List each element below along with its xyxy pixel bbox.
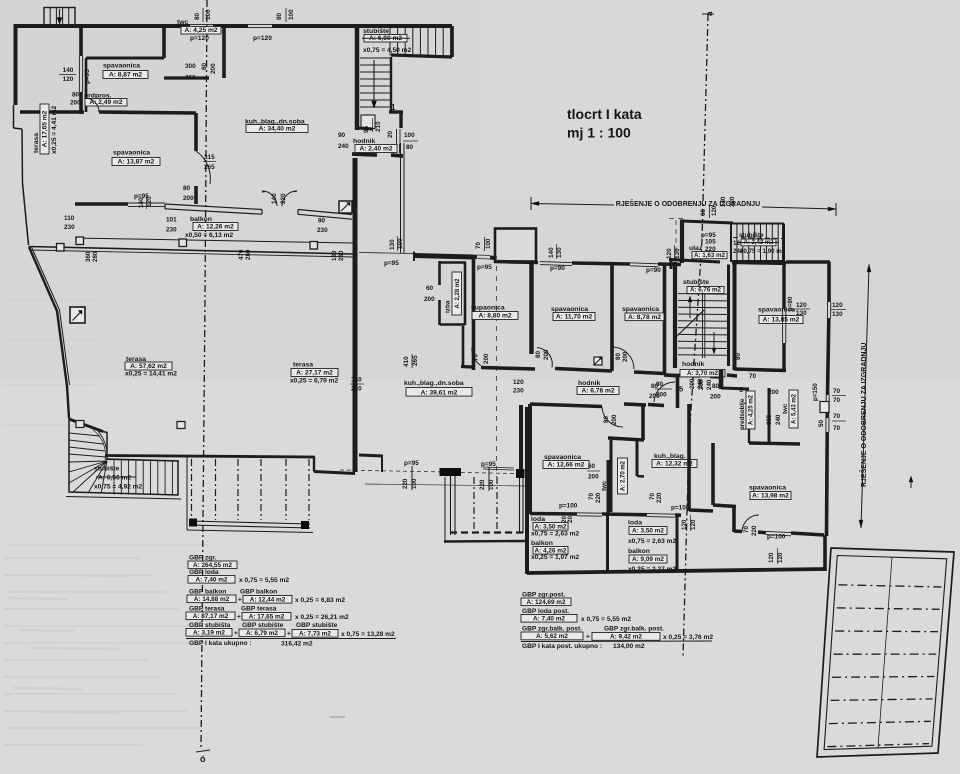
balcony edge lines with column squares (75, 238, 353, 243)
svg-text:70: 70 (833, 413, 841, 420)
svg-text:spavaonica: spavaonica (103, 63, 140, 70)
svg-text:180: 180 (331, 250, 338, 261)
door arc kupaonica (left end of bottom wall) (472, 347, 481, 366)
svg-text:120: 120 (796, 302, 807, 309)
wall top of spav 12.66 (530, 404, 602, 407)
run treads (113, 461, 115, 495)
left outer wall (14, 24, 18, 105)
predsoblje/twc walls (719, 370, 724, 389)
svg-text:A: 13,85 m2: A: 13,85 m2 (763, 317, 800, 324)
svg-text:265: 265 (204, 164, 215, 171)
13.85 right wall with window (782, 261, 785, 309)
svg-text:100: 100 (288, 9, 295, 20)
twc room walls (162, 26, 166, 58)
svg-text:predsoblje: predsoblje (739, 398, 746, 430)
svg-text:A: 3,50 m2: A: 3,50 m2 (535, 523, 567, 530)
svg-text:70: 70 (749, 373, 757, 380)
izba room (438, 261, 441, 285)
door arc 11.70 (613, 347, 634, 369)
door arc 13.98 (742, 515, 759, 532)
svg-text:355: 355 (766, 414, 773, 425)
svg-text:220: 220 (280, 193, 287, 204)
svg-text:120: 120 (711, 205, 718, 216)
door arc 12.66 top (602, 407, 623, 427)
svg-text:p=95: p=95 (404, 460, 419, 467)
svg-text:70: 70 (743, 526, 750, 533)
svg-text:80: 80 (535, 351, 542, 358)
top outer wall (14, 24, 190, 28)
svg-text:p=100: p=100 (671, 505, 690, 512)
svg-text:x0,75 = 4,92 m2: x0,75 = 4,92 m2 (94, 484, 143, 491)
svg-text:200: 200 (622, 351, 629, 362)
right building left wall (680, 220, 684, 264)
svg-text:hodnik: hodnik (353, 138, 375, 145)
svg-text:stubište: stubište (739, 232, 764, 239)
svg-text:80: 80 (603, 416, 610, 423)
wall x677 (676, 377, 680, 408)
svg-text:120: 120 (63, 76, 74, 83)
black corner square at door (594, 357, 602, 365)
svg-text:130: 130 (674, 248, 681, 259)
svg-text:GBP zgr.balk. post.: GBP zgr.balk. post. (522, 626, 582, 633)
svg-text:210: 210 (375, 121, 382, 132)
svg-text:tlocrt I kata: tlocrt I kata (567, 106, 642, 122)
bottom long wall (527, 569, 826, 573)
svg-text:A: 39,61 m2: A: 39,61 m2 (421, 389, 458, 396)
svg-text:kupaonica: kupaonica (471, 305, 505, 312)
svg-text:A: 1,63 m2: A: 1,63 m2 (694, 252, 726, 259)
svg-text:70: 70 (649, 493, 656, 500)
svg-text:A: 2,28 m2: A: 2,28 m2 (455, 278, 461, 309)
window p=120 #2 (248, 23, 272, 25)
svg-text:140: 140 (720, 196, 727, 207)
svg-text:A: 11,70 m2: A: 11,70 m2 (556, 314, 593, 321)
svg-text:A: 8,78 m2: A: 8,78 m2 (628, 314, 661, 321)
wall above strip2 (519, 405, 523, 469)
svg-text:izba: izba (445, 300, 452, 313)
svg-text:120: 120 (681, 519, 688, 530)
svg-text:A: 12,66 m2: A: 12,66 m2 (548, 462, 585, 469)
svg-text:200: 200 (483, 353, 490, 364)
13.98 bottom zigzag walls (713, 505, 736, 507)
svg-text:230: 230 (513, 388, 524, 395)
fan spokes (69, 461, 107, 462)
treads top run (vertical lines) (389, 28, 391, 56)
svg-text:100: 100 (485, 238, 492, 249)
faint bleed-through ghost lines bottom-left (4, 557, 140, 559)
door arc to hodnik right (654, 382, 675, 402)
svg-text:GBP stubišta: GBP stubišta (189, 622, 231, 629)
svg-text:p=90: p=90 (646, 267, 661, 274)
svg-text:x0,50 = 6,13 m2: x0,50 = 6,13 m2 (185, 232, 234, 239)
svg-text:A: 3,70 m2: A: 3,70 m2 (687, 370, 719, 377)
room divider spav8.78/stair column (663, 264, 667, 374)
svg-text:200: 200 (70, 100, 81, 107)
stair arrow down (373, 60, 375, 103)
stubiste 2.43 (top right stair) (731, 224, 783, 262)
svg-text:100: 100 (205, 9, 212, 20)
svg-text:terasa: terasa (293, 362, 313, 369)
svg-text:315: 315 (204, 154, 215, 161)
svg-text:balkon: balkon (531, 540, 553, 547)
stubiste 6.76 (right building stair) (678, 293, 727, 296)
svg-text:70: 70 (833, 388, 841, 395)
svg-text:200: 200 (611, 414, 618, 425)
svg-text:RJEŠENJE O ODOBRENJU ZA IZGRAD: RJEŠENJE O ODOBRENJU ZA IZGRADNJU (859, 343, 868, 487)
svg-text:300: 300 (185, 63, 196, 70)
svg-text:A: 4,25 m2: A: 4,25 m2 (749, 394, 755, 425)
svg-text:200: 200 (588, 474, 599, 481)
svg-text:80: 80 (406, 144, 414, 151)
window p=120 #1 (190, 23, 213, 25)
svg-text:GBP I kata ukupno :: GBP I kata ukupno : (189, 640, 252, 647)
faint bleed lines left middle (2, 299, 95, 301)
svg-text:A: 14,88 m2: A: 14,88 m2 (194, 596, 230, 603)
svg-text:220: 220 (402, 478, 409, 489)
svg-text:120: 120 (666, 248, 673, 259)
svg-text:x 0,75 = 13,28 m2: x 0,75 = 13,28 m2 (341, 631, 395, 638)
right wall of stair 2.43 (782, 224, 785, 262)
svg-text:stubište: stubište (683, 279, 709, 286)
svg-text:60: 60 (700, 209, 707, 216)
long wall from stair to center (105, 456, 315, 458)
svg-text:200: 200 (210, 63, 217, 74)
svg-text:6: 6 (739, 385, 743, 394)
svg-text:230: 230 (166, 227, 177, 234)
room divider kupaonica/spav11.70 (529, 261, 533, 354)
window p=100 right loda (766, 531, 791, 532)
svg-text:+: + (586, 634, 590, 641)
svg-text:+: + (238, 597, 242, 604)
upper flight treads (69, 433, 100, 436)
svg-text:p=95: p=95 (384, 260, 399, 267)
section line g (vertical dashed) (201, 0, 207, 748)
wall x643 down (641, 404, 645, 440)
svg-text:GBP loda post.: GBP loda post. (522, 608, 569, 615)
window right of porch (396, 129, 398, 144)
svg-text:470: 470 (238, 249, 245, 260)
svg-text:x 0,25 = 6,83 m2: x 0,25 = 6,83 m2 (295, 597, 345, 604)
svg-text:60: 60 (588, 463, 596, 470)
svg-text:A: 17,65 m2: A: 17,65 m2 (42, 110, 49, 147)
svg-text:A: 7,73 m2: A: 7,73 m2 (299, 630, 331, 637)
svg-text:GBP terasa: GBP terasa (241, 606, 277, 613)
stubiste 6.00 box (top) (355, 26, 360, 130)
svg-text:A: 6,76 m2: A: 6,76 m2 (690, 287, 722, 294)
svg-text:100: 100 (404, 132, 415, 139)
svg-text:200: 200 (656, 392, 667, 399)
svg-text:GBP loda: GBP loda (189, 569, 219, 576)
svg-text:ó: ó (200, 754, 206, 764)
svg-text:x0,25 = 4,41 m2: x0,25 = 4,41 m2 (51, 105, 58, 154)
svg-text:220: 220 (479, 479, 486, 490)
svg-text:A: 57,62 m2: A: 57,62 m2 (130, 363, 167, 370)
svg-text:p=90: p=90 (550, 265, 565, 272)
section line a (vertical dash-dot) (683, 14, 708, 658)
svg-text:spavaonica: spavaonica (551, 306, 588, 313)
svg-text:x0,75 = 4,50 m2: x0,75 = 4,50 m2 (363, 47, 412, 54)
svg-text:A: 87,17 m2: A: 87,17 m2 (193, 613, 229, 620)
svg-text:220: 220 (595, 492, 602, 503)
svg-text:p=100: p=100 (559, 503, 578, 510)
svg-text:GBP zgr.balk. post.: GBP zgr.balk. post. (604, 626, 664, 633)
svg-text:A: 2,70 m2: A: 2,70 m2 (621, 460, 627, 491)
svg-text:p=150: p=150 (812, 383, 819, 401)
svg-text:hodnik: hodnik (682, 361, 704, 368)
loda row right wall (823, 535, 827, 571)
svg-text:140: 140 (63, 67, 74, 74)
svg-text:p=120: p=120 (253, 35, 272, 42)
svg-text:130: 130 (389, 239, 396, 250)
svg-text:spavaonica: spavaonica (113, 150, 150, 157)
svg-text:x 0,75 = 5,55 m2: x 0,75 = 5,55 m2 (239, 577, 289, 584)
svg-text:x0,25 = 1,07 m2: x0,25 = 1,07 m2 (531, 554, 580, 561)
svg-text:A: 3,19 m2: A: 3,19 m2 (193, 629, 225, 636)
svg-text:GBP balkon: GBP balkon (240, 589, 277, 596)
svg-text:360: 360 (85, 251, 92, 262)
svg-text:spavaonica: spavaonica (622, 306, 659, 313)
svg-text:100: 100 (488, 479, 495, 490)
wall below entry going down (353, 158, 358, 255)
svg-text:twc: twc (782, 403, 789, 414)
svg-text:100: 100 (411, 478, 418, 489)
svg-text:GBP stubište: GBP stubište (296, 622, 338, 629)
right building top wall (682, 221, 733, 223)
right wall of 13.87 (194, 113, 198, 151)
svg-text:A: 9,09 m2: A: 9,09 m2 (632, 556, 664, 563)
svg-text:A: 6,78 m2: A: 6,78 m2 (582, 388, 615, 395)
svg-text:stubište: stubište (363, 28, 389, 35)
svg-text:A: 6,79 m2: A: 6,79 m2 (246, 630, 278, 637)
svg-text:A: 9,42 m2: A: 9,42 m2 (610, 634, 642, 641)
waist wall west of kupaonica (414, 256, 473, 258)
svg-text:105: 105 (705, 239, 716, 246)
svg-text:x0,25 = 14,41 m2: x0,25 = 14,41 m2 (125, 371, 177, 378)
svg-text:200: 200 (689, 378, 696, 389)
svg-text:130: 130 (832, 311, 843, 318)
svg-text:A: 12,26 m2: A: 12,26 m2 (197, 224, 234, 231)
ulaz bottom wall with hook (669, 260, 720, 263)
svg-text:GBP zgr.: GBP zgr. (189, 555, 217, 562)
svg-text:balkon: balkon (628, 548, 650, 555)
svg-text:GBP stubište: GBP stubište (242, 622, 284, 629)
svg-text:GBP I kata post. ukupno :: GBP I kata post. ukupno : (522, 643, 602, 650)
svg-text:80: 80 (194, 12, 201, 20)
small square right of stair (177, 422, 185, 429)
svg-text:A: 7,40 m2: A: 7,40 m2 (196, 576, 228, 583)
svg-text:200: 200 (710, 394, 721, 401)
svg-text:A: 8,80 m2: A: 8,80 m2 (479, 313, 512, 320)
svg-text:70: 70 (475, 242, 482, 249)
svg-text:A: 2,49 m2: A: 2,49 m2 (90, 99, 123, 106)
13.85 bottom wall (734, 369, 786, 371)
svg-text:x 0,25 = 26,21 m2: x 0,25 = 26,21 m2 (295, 614, 349, 621)
svg-text:x0,75 = 1,90 m2: x0,75 = 1,90 m2 (740, 248, 786, 255)
svg-text:GBP zgr.post.: GBP zgr.post. (522, 592, 565, 599)
wall segment right of center column (359, 455, 383, 456)
svg-text:A: 5,43 m2: A: 5,43 m2 (792, 393, 798, 424)
windows in right wall (825, 395, 827, 409)
svg-text:316,42 m2: 316,42 m2 (281, 641, 313, 648)
svg-text:A: 8,87 m2: A: 8,87 m2 (109, 72, 142, 79)
svg-text:95: 95 (363, 125, 370, 133)
svg-text:x0,75 = 2,63 m2: x0,75 = 2,63 m2 (628, 538, 677, 545)
svg-text:220: 220 (729, 196, 736, 207)
svg-text:200: 200 (183, 195, 194, 202)
small arrow above pool (910, 478, 912, 488)
RJESENJE horizontal dimension (531, 204, 614, 206)
svg-text:x 0,75 = 5,55 m2: x 0,75 = 5,55 m2 (581, 616, 631, 623)
svg-text:hodnik: hodnik (578, 380, 600, 387)
kupaonica left wall (472, 258, 476, 370)
svg-text:220: 220 (656, 492, 663, 503)
svg-text:70: 70 (833, 397, 841, 404)
kuh right wall (687, 404, 691, 511)
strip2 structure (440, 468, 462, 476)
RJESENJE vertical dimension right side (861, 266, 869, 528)
svg-text:spavaonica: spavaonica (544, 454, 581, 461)
svg-text:134,00 m2: 134,00 m2 (613, 643, 645, 650)
dividers (606, 514, 609, 571)
svg-text:p=100: p=100 (767, 534, 786, 541)
svg-text:A: 7,40 m2: A: 7,40 m2 (533, 615, 565, 622)
svg-text:A: 3,50 m2: A: 3,50 m2 (632, 528, 664, 535)
svg-text:stubište: stubište (94, 466, 120, 473)
svg-text:200: 200 (424, 296, 435, 303)
curve (90, 424, 107, 459)
svg-text:RJEŠENJE O ODOBRENJU ZA IZGRAD: RJEŠENJE O ODOBRENJU ZA IZGRADNJU (616, 199, 760, 208)
entry porch step walls (389, 110, 403, 113)
svg-text:200: 200 (543, 349, 550, 360)
terrace strip hatch left (186, 457, 188, 530)
svg-text:GBP terasa: GBP terasa (189, 606, 225, 613)
svg-text:140: 140 (138, 197, 145, 208)
svg-text:A: 13,98 m2: A: 13,98 m2 (752, 493, 789, 500)
twc 2.70 walls (608, 438, 644, 440)
svg-text:A: 124,69 m2: A: 124,69 m2 (526, 599, 566, 606)
svg-text:+: + (234, 630, 238, 637)
svg-text:265: 265 (185, 75, 196, 82)
svg-text:120: 120 (513, 379, 524, 386)
svg-text:101: 101 (166, 217, 177, 224)
railing east of entry (thin double) (400, 143, 402, 253)
svg-text:A: 5,62 m2: A: 5,62 m2 (536, 633, 568, 640)
svg-text:20: 20 (387, 130, 394, 138)
meter symbol on central wall (339, 201, 352, 213)
svg-text:balkon: balkon (190, 216, 212, 223)
svg-text:80: 80 (712, 383, 720, 390)
svg-text:mj 1 : 100: mj 1 : 100 (567, 125, 631, 141)
svg-text:220: 220 (751, 525, 758, 536)
middle row top wall y~263 (494, 262, 538, 263)
svg-text:60: 60 (201, 62, 208, 70)
corridor dashed line (496, 256, 498, 477)
svg-text:280: 280 (245, 249, 252, 260)
kupaonica shaft box (495, 229, 536, 262)
svg-text:240: 240 (338, 143, 349, 150)
door arc 13.87->kuh (196, 151, 210, 184)
svg-text:x0,25 = 6,79 m2: x0,25 = 6,79 m2 (290, 378, 339, 385)
room divider spav11.70/spav8.78 (610, 264, 614, 371)
svg-text:90: 90 (318, 218, 326, 225)
svg-text:90: 90 (338, 132, 346, 139)
loda row top wall (530, 512, 577, 516)
svg-text:+: + (237, 614, 241, 621)
svg-text:kuh.,blag.,dn.soba: kuh.,blag.,dn.soba (404, 380, 464, 387)
svg-text:130: 130 (556, 247, 563, 258)
svg-text:140: 140 (548, 247, 555, 258)
svg-text:100: 100 (397, 238, 404, 249)
svg-text:A: 12,44 m2: A: 12,44 m2 (250, 596, 286, 603)
svg-text:140: 140 (271, 193, 278, 204)
svg-text:twc: twc (177, 19, 189, 26)
svg-text:80: 80 (276, 12, 283, 20)
svg-text:280: 280 (92, 251, 99, 262)
svg-text:410: 410 (403, 356, 410, 367)
svg-text:p=95: p=95 (477, 264, 492, 271)
wall x608 lower (607, 460, 610, 514)
svg-text:230: 230 (317, 227, 328, 234)
svg-text:p=120: p=120 (190, 35, 209, 42)
svg-text:A: 13,87 m2: A: 13,87 m2 (118, 159, 155, 166)
svg-text:A: 264,55 m2: A: 264,55 m2 (193, 562, 233, 569)
electrical meter symbol on slanted wall (70, 307, 85, 323)
treads descending run (horizontal lines) (360, 57, 391, 59)
svg-text:140: 140 (351, 377, 362, 384)
hodnik 2.40 area (361, 115, 375, 129)
interior wall above spavaonica 13.87 (20, 110, 84, 114)
svg-text:120: 120 (768, 552, 775, 563)
small staircase top-left (44, 8, 75, 26)
middle row bottom wall (461, 365, 472, 369)
svg-text:130: 130 (796, 310, 807, 317)
svg-text:20: 20 (567, 516, 574, 523)
svg-text:A: 17,65 m2: A: 17,65 m2 (249, 613, 285, 620)
spavaonica 13.85 room (733, 262, 737, 370)
door arc prdpros->spav (86, 98, 99, 112)
svg-text:120: 120 (146, 196, 153, 207)
dashed projection around ulaz (675, 220, 677, 260)
stair 6.76 right wall (727, 265, 730, 367)
loda row left wall (525, 407, 529, 574)
svg-text:120: 120 (777, 552, 784, 563)
stair 6.76 left wall (673, 262, 677, 368)
hodnik 3.70 bottom wall (664, 375, 700, 376)
svg-text:240: 240 (775, 414, 782, 425)
svg-text:loda: loda (531, 516, 545, 523)
svg-text:70: 70 (473, 354, 480, 361)
svg-text:110: 110 (64, 215, 75, 222)
svg-text:70: 70 (833, 425, 841, 432)
wall between terasa strip and spavaonica 8.87 (79, 26, 83, 56)
svg-text:80: 80 (183, 185, 191, 192)
svg-text:70: 70 (588, 493, 595, 500)
svg-text:spavaonica: spavaonica (749, 485, 786, 492)
svg-text:A: 6,56 m2: A: 6,56 m2 (98, 475, 131, 482)
svg-text:kuh.,blag.: kuh.,blag. (654, 453, 686, 460)
svg-text:120: 120 (832, 302, 843, 309)
svg-text:A: 27,17 m2: A: 27,17 m2 (296, 370, 333, 377)
svg-text:50: 50 (818, 420, 825, 427)
svg-text:230: 230 (64, 224, 75, 231)
pool terrace bottom-right (817, 548, 954, 757)
outer right wall (827, 262, 831, 302)
svg-text:x0,75 = 2,63 m2: x0,75 = 2,63 m2 (531, 531, 580, 538)
svg-text:60: 60 (426, 285, 434, 292)
bottom wall stubs of hodnik (666, 375, 678, 376)
svg-text:A: 2,40 m2: A: 2,40 m2 (360, 146, 393, 153)
svg-text:220: 220 (351, 386, 362, 393)
